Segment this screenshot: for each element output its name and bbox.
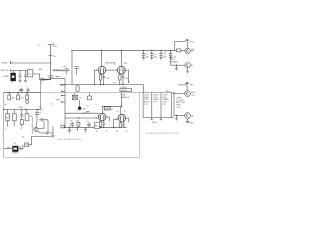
lamp NE2 black dot [78, 107, 81, 110]
resistor R2 vertical [76, 86, 79, 92]
wire stub y76.4 [56, 75, 60, 77]
enclosure box bottom edge [4, 156, 140, 158]
ground x69.5 [68, 127, 71, 133]
wire H_bl bottom rail [63, 126, 126, 128]
resistor Rk3 [100, 122, 102, 127]
resistor Rk2 [119, 75, 121, 80]
resistor R10 [13, 109, 15, 113]
wire to J1 [181, 50, 185, 52]
node stub dots on V2 [61, 84, 65, 102]
box B3 [94, 123, 99, 129]
svg-text:XFMR: XFMR [12, 152, 18, 154]
text labels right of C9 [170, 56, 179, 64]
wire vertical x72 [71, 50, 73, 84]
wire right lead tube3 [106, 117, 110, 121]
svg-text:.1: .1 [26, 87, 27, 89]
wire short interlock [53, 70, 65, 72]
svg-text:.05: .05 [22, 137, 24, 139]
ground bar top right [185, 39, 188, 48]
wire H3 [4, 108, 43, 110]
svg-text:4u: 4u [14, 143, 16, 145]
svg-text:25: 25 [106, 130, 108, 132]
resistor R3 box with X [72, 93, 82, 100]
node dots on H_mid [94, 82, 130, 86]
capacitor C8 [159, 50, 166, 60]
resistor R1 box [28, 70, 33, 77]
svg-text:SHIELD: SHIELD [121, 90, 128, 92]
svg-text:SW1: SW1 [38, 69, 42, 71]
wire drop to tube V1a [100, 50, 102, 66]
svg-text:+10: +10 [86, 121, 89, 123]
tube V1b [118, 66, 126, 76]
node dots H_bl [100, 127, 115, 128]
text block channel A [0, 0, 1, 1]
wire right lead tube4 [126, 118, 129, 122]
svg-text:INTERLOCK: INTERLOCK [53, 69, 64, 71]
svg-text:TAPE: TAPE [166, 90, 171, 93]
svg-text:.05: .05 [70, 120, 72, 122]
wire right columns rail top [140, 92, 174, 94]
box small near V2 [61, 125, 65, 128]
enclosure box top edge [4, 92, 140, 94]
transformer T1 dark blob [3, 71, 15, 85]
svg-text:R1: R1 [28, 73, 30, 75]
svg-text:GND: GND [189, 85, 194, 87]
capacitor C13 on V4 [35, 109, 39, 127]
capacitor C5 electrolytic [67, 65, 79, 75]
wire VL to blob [4, 147, 13, 149]
capacitor C4 on V1 [48, 76, 54, 78]
shield line phono [31, 117, 33, 134]
grid lead tube3 (wire Wb) [65, 117, 98, 119]
svg-text:5: 5 [0, 148, 1, 150]
wire column 2 [151, 93, 153, 118]
svg-text:600: 600 [154, 57, 157, 59]
enclosure box right edge [139, 93, 141, 158]
wire riser x121.4 [120, 93, 122, 107]
electrolytic C17 [86, 121, 91, 128]
svg-text:47u: 47u [53, 56, 56, 58]
wire columns bottom rail [143, 117, 174, 119]
resistor Rk1 [99, 75, 101, 80]
svg-text:5: 5 [0, 106, 1, 108]
wire column 4 [171, 93, 173, 118]
tube V2a [98, 113, 106, 123]
capacitor C1 [18, 71, 21, 83]
resistor R12 [76, 120, 80, 127]
capacitor C5a electrolytic [63, 66, 69, 74]
wire H2 dark overlay left [4, 92, 41, 94]
ground below x176.4 [175, 65, 178, 70]
capacitor C7 [150, 50, 157, 60]
node dots on H2 [9, 92, 28, 93]
wire vertical x174 [173, 94, 175, 116]
resistor small box x89 [89, 93, 91, 97]
wire V1 vertical [50, 45, 52, 80]
wire column rail vertical from H_mid [143, 85, 145, 93]
svg-text:47: 47 [20, 128, 22, 130]
capacitor C3 series horizontal [40, 78, 47, 84]
wire plate out tube2 [125, 70, 128, 82]
jack J4 bottom bar [186, 119, 190, 123]
svg-text:BALANCE: BALANCE [121, 96, 130, 99]
box small with tilde [25, 143, 29, 147]
ground symbol x52 [51, 135, 54, 138]
svg-text:12AX7: 12AX7 [105, 108, 110, 111]
resistor R9 [7, 109, 9, 113]
wire C3 to V1 [46, 79, 51, 81]
svg-text:22: 22 [50, 103, 52, 105]
phono jack J5 [34, 121, 46, 133]
blob transformer T2 [7, 143, 24, 155]
node junction dot W1 [10, 62, 11, 63]
wire H 78.4 to V2 [51, 77, 66, 79]
svg-text:.02: .02 [86, 105, 88, 107]
svg-text:600: 600 [146, 57, 149, 59]
capacitor Ck3 [103, 123, 106, 127]
grid lead tube4 [114, 119, 118, 127]
resistor R8 with circle [26, 93, 28, 96]
wire column 1 [142, 93, 144, 118]
capacitor C2 [24, 71, 27, 83]
capacitor Ck4 [122, 124, 125, 127]
svg-text:40: 40 [67, 70, 69, 72]
svg-text:25: 25 [125, 131, 127, 133]
resistor R5 series [177, 49, 181, 52]
svg-text:.1: .1 [95, 104, 96, 106]
enclosure box left edge [3, 93, 5, 158]
svg-text:.05: .05 [164, 52, 166, 54]
resistor Rk4 [119, 123, 121, 127]
wire W1 top input [10, 61, 51, 63]
capacitor Ck2 [122, 76, 125, 84]
capacitor C9 [164, 50, 172, 60]
svg-text:V2: V2 [117, 111, 119, 113]
node junction dot W2 [10, 70, 11, 71]
column text blocks [144, 95, 170, 106]
wire blob right path [18, 145, 23, 149]
jack J2 [171, 62, 194, 72]
resistor R11 [26, 109, 28, 113]
jack J1 [185, 48, 196, 53]
svg-text:470: 470 [76, 120, 79, 122]
wire V2 vertical [64, 78, 66, 127]
wire V3 vertical [40, 79, 42, 109]
svg-text:.05 AMP: .05 AMP [120, 86, 128, 89]
svg-text:SHLD: SHLD [152, 122, 158, 124]
label box B2 [120, 86, 132, 99]
capacitor bank C6 [142, 50, 149, 60]
wire R1 to C3 [33, 74, 40, 80]
svg-text:XFMR: XFMR [3, 76, 9, 78]
wire H_mid [60, 84, 144, 86]
svg-text:.01: .01 [40, 82, 42, 84]
svg-text:ALL INPUT JACKS PHONO TYPE RCA: ALL INPUT JACKS PHONO TYPE RCA [146, 132, 179, 135]
jack J3 [166, 90, 197, 97]
jack J3 top bar [178, 83, 189, 91]
jack J4 [174, 113, 194, 119]
wire column 3 [160, 93, 162, 118]
wire Wa to tube3 [65, 112, 99, 114]
wire to ground right [29, 136, 52, 144]
capacitor C11 above H2 [18, 86, 24, 92]
stubs below bottom rail [151, 118, 163, 120]
svg-text:GND: GND [189, 122, 194, 124]
resistor R6 [8, 93, 10, 96]
svg-text:T1: T1 [11, 83, 13, 85]
capacitor C12 [20, 109, 24, 129]
svg-text:+40: +40 [63, 66, 66, 68]
wire grid riser tube1 [94, 70, 98, 84]
resistor R13 on link [104, 107, 110, 110]
capacitor Ck1 [102, 76, 105, 84]
svg-text:NE2: NE2 [83, 108, 87, 110]
wire tube3 plate link [102, 106, 121, 114]
wire plate link tube1-tube2 [106, 69, 118, 71]
resistor R7 [17, 93, 19, 96]
node tick on V1 [49, 55, 53, 57]
svg-text:.02: .02 [39, 112, 41, 114]
svg-text:GND IN: GND IN [1, 70, 9, 72]
svg-text:117VAC: 117VAC [1, 62, 9, 65]
rail H_top [71, 49, 177, 51]
wire vertical x170.6 to J2 [170, 60, 172, 65]
svg-text:CERAMIC: CERAMIC [170, 61, 179, 64]
wire drop to tube V1b [120, 50, 122, 66]
tube V1a [98, 66, 106, 76]
wire branch up [175, 42, 186, 51]
node B+ T-bar [48, 44, 54, 46]
ground x85.5 [84, 127, 87, 132]
svg-text:(SEE LOW LEAKAGE NOTE): (SEE LOW LEAKAGE NOTE) [58, 138, 82, 141]
wire W2 second input [10, 70, 28, 72]
wire stub V3 to V1 [41, 78, 51, 80]
capacitor C16 [70, 120, 74, 127]
capacitor C15 [39, 118, 48, 133]
tube V2b [118, 114, 126, 124]
svg-text:.02: .02 [113, 64, 115, 66]
stub dot below rail [76, 127, 78, 129]
text block channel B [176, 97, 185, 109]
svg-text:LOG: LOG [176, 107, 180, 109]
capacitor C14 [46, 126, 53, 135]
ground below J4 wire [175, 116, 178, 121]
svg-text:600: 600 [163, 57, 166, 59]
svg-text:.1: .1 [18, 86, 19, 88]
capacitor C11b above H2 [26, 87, 29, 93]
